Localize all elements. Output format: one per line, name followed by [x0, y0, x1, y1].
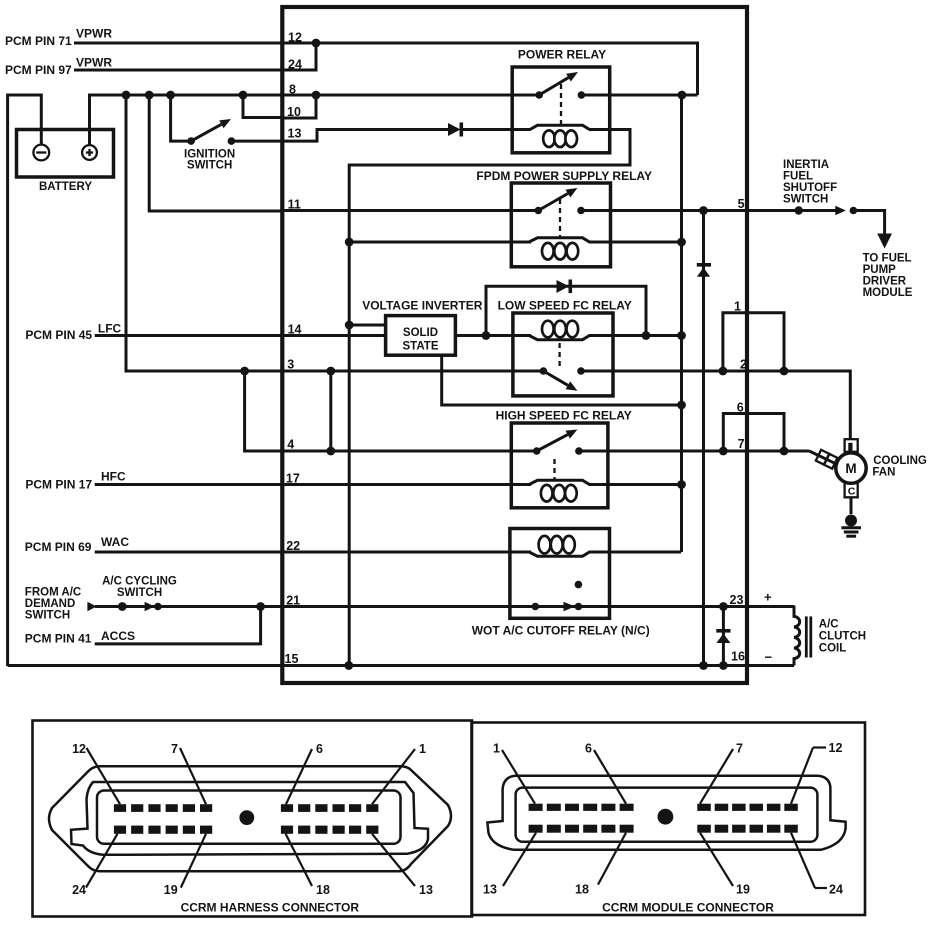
node bypass reconnect: [642, 331, 651, 340]
svg-text:11: 11: [288, 198, 301, 212]
low speed armature dashed link: [558, 343, 560, 367]
low speed relay arm (pointing down-right): [543, 371, 568, 385]
svg-text:PCM PIN 69: PCM PIN 69: [25, 540, 92, 554]
svg-text:ACCS: ACCS: [101, 629, 135, 643]
wire pin8 internal to power relay: [282, 94, 539, 97]
svg-text:PCM PIN 45: PCM PIN 45: [25, 328, 92, 342]
relay K3 LOW SPEED FC RELAY box: [513, 313, 613, 396]
svg-text:13: 13: [419, 883, 433, 897]
FPDM left contact: [535, 207, 543, 215]
svg-text:2: 2: [740, 358, 747, 372]
svg-text:22: 22: [286, 539, 300, 553]
harness connector outer shell: [49, 766, 451, 871]
wire pin3 internal to low speed contact: [282, 370, 543, 373]
low speed right contact: [577, 367, 585, 375]
svg-text:CCRM HARNESS CONNECTOR: CCRM HARNESS CONNECTOR: [181, 901, 360, 915]
node pin23 diode branch: [719, 602, 728, 611]
wire jumper pins 8-10 internal: [282, 95, 316, 118]
node bus x149: [145, 91, 154, 100]
svg-text:1: 1: [734, 300, 741, 314]
svg-text:24: 24: [72, 883, 86, 897]
node low speed coil to x682 vertical: [677, 331, 686, 340]
wire pin2 line low speed contact to fan: [581, 371, 850, 440]
svg-text:HIGH SPEED FC RELAY: HIGH SPEED FC RELAY: [496, 409, 632, 423]
FPDM armature dashed link: [559, 199, 561, 238]
svg-text:3: 3: [287, 358, 294, 372]
wire pin21/23 line to A/C clutch: [578, 605, 794, 608]
ignition switch right contact: [228, 137, 236, 145]
node pin3/4 internal jumper bottom: [326, 447, 335, 456]
svg-text:12: 12: [288, 31, 302, 45]
node pin3/4 internal jumper top: [326, 367, 335, 376]
high speed relay arm: [537, 435, 568, 451]
svg-text:24: 24: [288, 58, 302, 72]
battery minus terminal: [33, 145, 49, 161]
diode D2 on bypass wire: [557, 280, 570, 293]
wire pin21 line from demand switch: [95, 605, 578, 608]
cooling fan motor M1: [836, 453, 866, 483]
svg-text:COOLING: COOLING: [873, 455, 927, 467]
battery plus terminal: [82, 145, 97, 160]
wire ACCS from PCM PIN 41: [95, 607, 261, 644]
svg-text:FUEL: FUEL: [783, 171, 813, 183]
node x682 top of long vertical: [677, 238, 686, 247]
high speed left contact: [533, 447, 541, 455]
svg-text:A/C: A/C: [819, 619, 839, 631]
node pin1/2 jumper inner: [719, 367, 728, 376]
node coil return bus to pin15: [344, 661, 353, 670]
svg-text:HFC: HFC: [101, 470, 126, 484]
wire pin3-4 external jumper: [245, 371, 283, 451]
module connector inner cavity: [516, 788, 818, 842]
svg-text:6: 6: [585, 742, 592, 756]
svg-text:M: M: [845, 461, 856, 476]
wire pin22 WAC line and WOT coil line: [95, 551, 531, 554]
node bus x126: [122, 91, 131, 100]
wire pin5 line FPDM contact to inertia switch: [581, 209, 799, 212]
wire long vertical x682 power output to WOT coil: [680, 95, 683, 552]
wire pin11 internal to FPDM contact: [282, 209, 538, 212]
svg-text:COIL: COIL: [819, 643, 846, 655]
diode D3 on x703 vertical: [697, 263, 711, 267]
svg-text:24: 24: [829, 883, 843, 897]
A/C clutch coil L6: [794, 606, 800, 666]
node high speed coil to x682 vertical: [677, 480, 686, 489]
harness connector inner cavity: [97, 791, 401, 844]
module pins bottom row: [529, 825, 798, 833]
module pins top row: [529, 804, 798, 811]
diode D1 on pin13 wire: [448, 123, 461, 136]
wire pin15 line from left vertical: [8, 664, 283, 667]
svg-text:POWER RELAY: POWER RELAY: [518, 48, 606, 62]
wire x349 vertical coil-return bus to pin15: [348, 242, 351, 666]
harness connector panel frame: [33, 721, 473, 917]
wire pin12 from PCM PIN 71: [74, 42, 282, 45]
svg-text:6: 6: [737, 401, 744, 415]
high speed coil L4: [529, 480, 590, 484]
svg-text:10: 10: [287, 105, 301, 119]
power relay coil L1: [525, 125, 596, 129]
wire power relay coil return: [349, 130, 630, 243]
node bus x243: [239, 91, 248, 100]
svg-text:+: +: [764, 590, 772, 605]
node solid state output branch: [482, 331, 491, 340]
node pin6/7 jumper inner: [719, 447, 728, 456]
svg-text:SWITCH: SWITCH: [117, 587, 162, 599]
wire pin13 from ignition switch: [231, 130, 448, 142]
svg-text:LOW SPEED FC RELAY: LOW SPEED FC RELAY: [498, 299, 632, 313]
svg-text:WOT A/C CUTOFF RELAY (N/C): WOT A/C CUTOFF RELAY (N/C): [472, 624, 650, 638]
svg-text:SWITCH: SWITCH: [25, 610, 70, 622]
svg-text:CCRM MODULE CONNECTOR: CCRM MODULE CONNECTOR: [602, 901, 774, 915]
a/c cycling switch right dot: [154, 603, 162, 611]
svg-text:12: 12: [72, 742, 86, 756]
svg-text:A/C CYCLING: A/C CYCLING: [102, 576, 177, 588]
wire pin17 HFC line and high speed coil line: [95, 483, 531, 486]
low speed coil L3: [529, 336, 590, 340]
svg-text:7: 7: [738, 437, 745, 451]
WOT arm with arrow: [535, 605, 565, 608]
wire diode bypass around low speed coil: [486, 286, 646, 335]
node pin5 diode branch: [699, 206, 708, 215]
svg-text:FROM A/C: FROM A/C: [25, 587, 81, 599]
wire pin24 from PCM PIN 97: [74, 69, 282, 72]
harness connector center socket: [239, 810, 254, 825]
node FPDM coil left junction: [345, 238, 354, 247]
svg-text:1: 1: [493, 742, 500, 756]
svg-text:23: 23: [730, 593, 744, 607]
WOT coil L5: [529, 552, 590, 556]
power relay right contact: [578, 91, 586, 99]
relay K1 POWER RELAY box: [512, 67, 610, 153]
arrow from A/C demand switch: [87, 602, 96, 611]
battery minus bus wire: [8, 95, 42, 666]
svg-text:SHUTOFF: SHUTOFF: [783, 182, 837, 194]
CCRM module outline box: [282, 7, 747, 683]
svg-text:12: 12: [829, 741, 843, 755]
svg-text:13: 13: [483, 883, 497, 897]
svg-text:1: 1: [419, 742, 426, 756]
relay K4 HIGH SPEED FC RELAY box: [511, 423, 608, 508]
wire power relay contact output: [581, 94, 697, 97]
svg-text:5: 5: [738, 197, 745, 211]
svg-text:18: 18: [575, 883, 589, 897]
module connector center socket: [658, 809, 674, 825]
svg-text:CLUTCH: CLUTCH: [819, 631, 866, 643]
svg-text:INERTIA: INERTIA: [783, 159, 829, 171]
wire pin12 internal run to power relay feed: [282, 43, 697, 95]
svg-text:VOLTAGE INVERTER: VOLTAGE INVERTER: [362, 299, 483, 313]
module connector outer shell with keys: [487, 776, 845, 850]
svg-text:6: 6: [316, 742, 323, 756]
power relay arm: [539, 78, 568, 95]
harness pins top row: [114, 804, 379, 812]
wire inertia switch to fuel pump arrow: [853, 211, 884, 236]
svg-text:13: 13: [288, 127, 302, 141]
wire fan to ground: [850, 497, 853, 514]
svg-text:PCM PIN 71: PCM PIN 71: [5, 34, 72, 48]
svg-text:LFC: LFC: [98, 322, 122, 336]
svg-text:BATTERY: BATTERY: [39, 181, 92, 193]
power relay left contact: [535, 91, 543, 99]
svg-text:7: 7: [736, 742, 743, 756]
inertia switch arm arrow: [799, 209, 836, 212]
wire pin6 stub jumpered to pin7: [723, 414, 784, 452]
svg-text:17: 17: [286, 472, 300, 486]
power relay armature dashed link: [560, 84, 562, 124]
FPDM right contact: [577, 207, 585, 215]
node bus x171: [166, 91, 175, 100]
high speed right contact: [575, 447, 583, 455]
a/c cycling switch left dot: [118, 602, 127, 611]
svg-text:C: C: [848, 485, 856, 497]
svg-text:MODULE: MODULE: [863, 287, 913, 299]
svg-text:FAN: FAN: [872, 467, 895, 479]
module connector panel frame: [472, 723, 866, 916]
WOT right contact: [575, 603, 583, 611]
node pin21/ACCS junction: [256, 602, 265, 611]
svg-text:PCM PIN 97: PCM PIN 97: [5, 63, 72, 77]
svg-text:FPDM POWER SUPPLY RELAY: FPDM POWER SUPPLY RELAY: [476, 169, 652, 183]
node x703 vertical to bus: [699, 661, 708, 670]
svg-text:PCM PIN 17: PCM PIN 17: [25, 478, 92, 492]
node solid state feed junction: [345, 321, 354, 330]
svg-text:SWITCH: SWITCH: [783, 194, 828, 206]
svg-text:SWITCH: SWITCH: [187, 160, 232, 172]
svg-text:7: 7: [171, 742, 178, 756]
svg-text:STATE: STATE: [403, 341, 439, 353]
svg-text:16: 16: [731, 650, 745, 664]
ground symbol G1: [845, 515, 857, 527]
svg-text:DRIVER: DRIVER: [863, 276, 907, 288]
wire pin11 external from bus: [149, 95, 282, 211]
wire pin15/16 internal bottom bus: [282, 664, 794, 667]
low speed left contact: [540, 367, 548, 375]
node pin3/4 external jumper top: [240, 367, 249, 376]
svg-text:VPWR: VPWR: [76, 56, 112, 70]
FPDM relay arm: [538, 194, 568, 211]
svg-text:21: 21: [286, 594, 300, 608]
wire pin4 internal to high speed contact: [282, 450, 536, 453]
svg-text:14: 14: [288, 323, 302, 337]
node power output junction: [678, 91, 687, 100]
svg-text:VPWR: VPWR: [76, 27, 112, 41]
wire pin13 diode to power relay coil: [463, 128, 530, 131]
wire jumper pins 12-24 internal: [282, 43, 316, 70]
wire x703 vertical pin5 to bottom bus: [702, 211, 705, 666]
svg-text:4: 4: [287, 438, 294, 452]
svg-text:−: −: [765, 650, 773, 665]
node pin6/7 jumper outer: [780, 447, 789, 456]
clutch coil core bars: [805, 616, 808, 657]
ignition switch feed wire: [171, 95, 192, 141]
node pin12/24 junction: [312, 39, 321, 48]
wire pin10 external drop from bus: [243, 95, 282, 118]
WOT left contact: [532, 603, 540, 611]
svg-text:19: 19: [736, 883, 750, 897]
voltage inverter U1 SOLID STATE box: [386, 316, 456, 356]
wire solid state upper feed from x349 vertical: [349, 324, 385, 327]
wire pin14 from PCM PIN 45: [95, 334, 386, 337]
wire pin3-4 internal jumper: [329, 371, 332, 451]
svg-text:WAC: WAC: [101, 535, 129, 549]
inertia switch contact dot left: [795, 206, 803, 214]
fan inline connector squares: [816, 450, 829, 465]
wire pin3 external from bus: [126, 95, 282, 371]
a/c cycling switch arrow: [145, 602, 155, 611]
wire pin7 line high speed contact to fan: [579, 450, 809, 453]
wire diagonal to fan motor: [809, 451, 838, 465]
svg-text:TO FUEL: TO FUEL: [863, 253, 912, 265]
svg-text:PUMP: PUMP: [863, 264, 897, 276]
node pin8/10 jumper junction: [312, 91, 321, 100]
svg-text:PCM PIN 41: PCM PIN 41: [25, 632, 92, 646]
svg-text:SOLID: SOLID: [403, 327, 438, 339]
wire solid state output / low speed coil line: [455, 334, 531, 337]
battery plus bus wire (pin 8 feed): [90, 95, 283, 146]
relay K5 WOT A/C CUTOFF RELAY box: [510, 529, 610, 619]
fan bottom terminal: [845, 483, 858, 497]
svg-text:8: 8: [289, 83, 296, 97]
svg-text:DEMAND: DEMAND: [25, 598, 75, 610]
ignition switch arm: [191, 124, 221, 141]
svg-text:15: 15: [285, 652, 299, 666]
inertia switch contact dot right: [850, 207, 858, 215]
svg-text:18: 18: [316, 883, 330, 897]
diode D4 clamp across clutch coil: [722, 607, 725, 666]
ignition switch left contact: [187, 137, 195, 145]
node diode D4 to bus: [719, 661, 728, 670]
node pin6 line to x682 vertical: [677, 401, 686, 410]
svg-text:19: 19: [164, 883, 178, 897]
arrow to fuel pump driver module: [877, 234, 892, 249]
fan top terminal: [845, 439, 858, 452]
relay K2 FPDM POWER SUPPLY RELAY box: [511, 183, 610, 267]
battery B1: [17, 130, 114, 178]
wire solid state bottom output to pin6 line: [442, 355, 682, 405]
node pin1/2 jumper outer: [780, 367, 789, 376]
high speed armature dashed link: [553, 459, 555, 481]
WOT upper throw contact: [575, 581, 583, 589]
FPDM coil L2: [349, 241, 531, 244]
wire WOT coil up to x682 vertical: [680, 551, 683, 554]
wire pin1 stub jumpered to pin2: [723, 313, 784, 371]
harness pins bottom row: [114, 826, 379, 834]
harness connector middle shell with keys: [71, 782, 428, 855]
